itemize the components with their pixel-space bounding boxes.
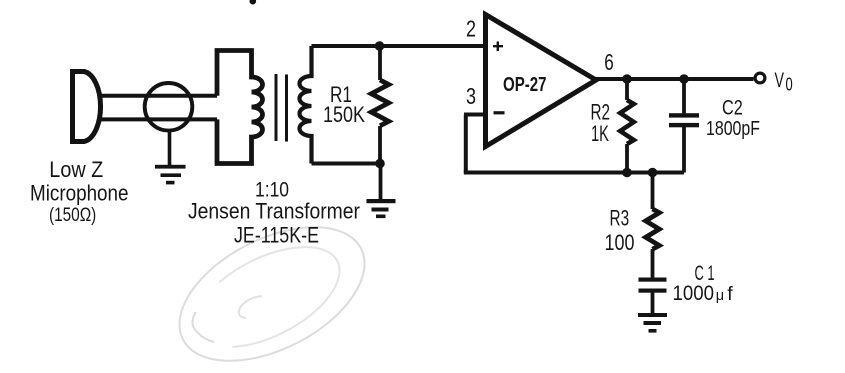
wire output rail pin 6 — [596, 77, 754, 81]
resistor R2 leads — [625, 79, 629, 173]
resistor R1 zigzag — [371, 80, 388, 126]
transformer core line left — [275, 74, 278, 141]
svg-text:Microphone: Microphone — [30, 180, 129, 205]
svg-text:C2: C2 — [722, 97, 743, 120]
resistor R3 leads — [651, 173, 655, 278]
svg-text:2: 2 — [466, 16, 476, 42]
svg-text:(150Ω): (150Ω) — [49, 204, 96, 226]
op-amp U1 triangle — [486, 15, 597, 147]
svg-text:6: 6 — [604, 49, 614, 75]
wire circle to ground — [168, 130, 172, 166]
svg-text:OP-27: OP-27 — [503, 74, 547, 96]
svg-text:0: 0 — [786, 75, 793, 95]
output terminal circle Vo — [755, 73, 765, 83]
node secondary bottom / R1 ground — [375, 159, 385, 169]
node output / R2 — [622, 74, 632, 84]
svg-text:150K: 150K — [323, 102, 365, 127]
microphone (Low Z) body — [73, 72, 101, 142]
node bottom rail / R2 — [622, 168, 632, 178]
node secondary top / R1 — [375, 41, 385, 51]
wire pin 3 stub — [464, 113, 486, 117]
capacitor C1 lead to ground — [651, 293, 655, 315]
watermark stain loop — [158, 200, 386, 373]
capacitor C2 plates — [669, 113, 699, 127]
resistor R2 zigzag — [620, 100, 634, 144]
svg-text:V: V — [775, 69, 785, 92]
ground below C1 — [638, 313, 667, 333]
svg-text:3: 3 — [466, 83, 476, 109]
svg-text:1K: 1K — [591, 121, 609, 146]
ground below connector circle — [155, 165, 186, 185]
transformer T1 secondary winding — [300, 46, 312, 164]
resistor R3 zigzag — [646, 209, 660, 249]
resistor R1 leads — [378, 46, 382, 200]
wire feedback bottom rail — [464, 171, 684, 175]
wire mic top lead — [100, 94, 217, 98]
node output / C2 — [679, 74, 689, 84]
svg-text:Low Z: Low Z — [49, 157, 103, 182]
minus sign pin3 — [494, 111, 505, 114]
node bottom rail / R3 — [648, 168, 658, 178]
stray ink speck top edge — [250, 0, 257, 5]
wire secondary bottom to R1 ground node — [312, 162, 381, 166]
plus sign pin2 — [493, 42, 503, 52]
junction node dots — [375, 41, 689, 177]
wire mic bottom lead — [100, 117, 217, 121]
transformer core line right — [285, 75, 288, 142]
wire secondary top to op-amp pin 2 — [312, 44, 486, 48]
svg-text:μ: μ — [716, 288, 724, 304]
svg-text:100: 100 — [605, 230, 635, 255]
connector circle — [145, 83, 193, 131]
svg-text:f: f — [727, 283, 733, 305]
svg-text:JE-115K-E: JE-115K-E — [234, 223, 319, 248]
wire pin 3 down — [464, 115, 468, 173]
capacitor C1 plates — [639, 278, 667, 293]
ground below R1 — [367, 199, 396, 218]
capacitor C2 leads — [682, 79, 686, 173]
svg-text:R3: R3 — [610, 206, 630, 231]
svg-text:1800pF: 1800pF — [706, 118, 760, 140]
svg-text:Jensen Transformer: Jensen Transformer — [188, 199, 360, 224]
svg-text:1000: 1000 — [673, 282, 715, 305]
transformer T1 primary winding — [217, 51, 263, 164]
